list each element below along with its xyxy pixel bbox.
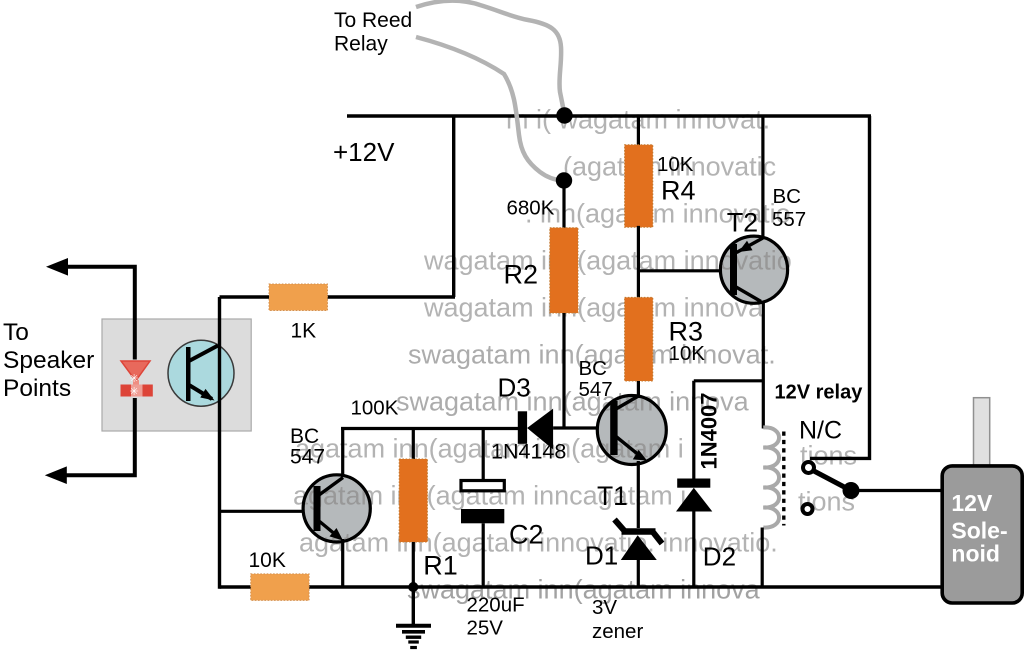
- resistor 10K left: [251, 574, 309, 601]
- svg-text:R4: R4: [661, 176, 696, 206]
- arrow to speaker points top: [46, 258, 68, 276]
- svg-text:12V relay: 12V relay: [775, 382, 864, 404]
- transistor T2: [423, 236, 792, 303]
- wire D1 to ground rail: [637, 560, 640, 587]
- svg-text:25V: 25V: [467, 617, 504, 640]
- svg-text:BC: BC: [579, 357, 608, 380]
- wire R1 top: [412, 429, 415, 460]
- svg-text:swagatam inn(agatam innova: swagatam inn(agatam innova: [407, 574, 761, 604]
- svg-text:Points: Points: [3, 375, 71, 402]
- wire T2 collector to relay coil: [762, 301, 765, 429]
- svg-text:R2: R2: [504, 260, 539, 290]
- wire gray to reed relay A: [416, 1, 564, 112]
- wire optocoupler LED loop with speaker arrows: [60, 267, 135, 475]
- wire D2 cathode: [692, 381, 695, 479]
- relay core dotted: [782, 432, 785, 526]
- wire R4 top: [637, 116, 640, 146]
- svg-text:3V: 3V: [592, 596, 617, 619]
- wire R1 bottom: [412, 542, 415, 587]
- solenoid body: [942, 466, 1022, 603]
- diode D3: [518, 409, 553, 450]
- node R2 top: [556, 172, 572, 188]
- wire signal line left of D3: [341, 427, 518, 430]
- transistor T1: [295, 386, 750, 464]
- svg-text:547: 547: [579, 378, 613, 401]
- wire D2 top horizontal: [694, 379, 764, 382]
- wire relay coil to ground rail: [761, 528, 764, 588]
- node R1 ground: [408, 582, 418, 592]
- svg-text:1K: 1K: [291, 320, 317, 343]
- svg-text:zener: zener: [592, 620, 643, 643]
- svg-text:D2: D2: [703, 542, 736, 572]
- svg-text:T2: T2: [727, 208, 759, 238]
- svg-text:N/C: N/C: [799, 417, 842, 445]
- wire D2 anode to ground rail: [692, 512, 695, 588]
- LED symbol inside optocoupler: [119, 360, 153, 399]
- diode D2: [676, 479, 712, 512]
- relay coil: [763, 427, 779, 527]
- resistor R1: [399, 459, 427, 542]
- optocoupler body: [102, 319, 251, 431]
- capacitor C2: [461, 429, 504, 588]
- svg-text:To Reed: To Reed: [334, 9, 412, 32]
- svg-text:680K: 680K: [507, 197, 555, 220]
- wire 1K to optocoupler collector: [220, 295, 270, 298]
- wire emitter left BC547: [341, 539, 344, 587]
- wire base left BC547: [220, 510, 316, 513]
- wire R2 bottom: [562, 313, 565, 429]
- svg-text:D3: D3: [498, 373, 531, 403]
- relay contact N/O: [803, 504, 813, 514]
- wire T1 emitter to D1: [637, 461, 640, 528]
- svg-text:220uF: 220uF: [467, 594, 525, 617]
- svg-text:10K: 10K: [669, 342, 706, 365]
- svg-text:D1: D1: [585, 541, 618, 571]
- resistor R3: [625, 297, 653, 381]
- svg-text:10K: 10K: [657, 153, 694, 176]
- svg-text:T1: T1: [597, 481, 628, 511]
- svg-text:R1: R1: [423, 551, 458, 581]
- wire collector left BC547: [341, 427, 344, 477]
- wire optocoupler transistor vertical: [218, 297, 221, 589]
- wire gray to reed relay B: [416, 37, 562, 181]
- svg-text:Speaker: Speaker: [3, 347, 94, 374]
- svg-text:noid: noid: [951, 540, 1000, 566]
- wire T2 base: [638, 269, 730, 272]
- svg-text:10K: 10K: [249, 549, 286, 572]
- wire relay pole to solenoid: [851, 489, 941, 492]
- zener D1: [615, 520, 663, 561]
- wire +12V rail: [347, 114, 871, 117]
- transistor Q1 BC547 left: [293, 475, 778, 558]
- svg-text:BC: BC: [773, 185, 802, 208]
- wire +12V to T2 emitter: [761, 116, 764, 238]
- relay contact N/C: [803, 462, 814, 473]
- svg-text:✳: ✳: [130, 373, 139, 385]
- svg-text:To: To: [3, 319, 29, 346]
- wire N/C to +12V rail: [810, 116, 870, 458]
- svg-text:100K: 100K: [351, 397, 399, 420]
- svg-text:547: 547: [290, 446, 325, 469]
- svg-text:12V: 12V: [951, 490, 993, 516]
- resistor R2: [550, 228, 578, 313]
- relay armature: [813, 471, 849, 490]
- wire R2 top stub: [562, 181, 565, 231]
- wire R3 to T1 collector: [637, 381, 640, 398]
- svg-text:C2: C2: [509, 520, 544, 550]
- arrow to speaker points bottom: [45, 466, 67, 484]
- wire R4 to R3: [637, 226, 640, 298]
- optocoupler phototransistor: [168, 340, 234, 406]
- svg-text:1N4007: 1N4007: [697, 392, 722, 469]
- resistor 1K: [269, 284, 328, 311]
- wire D3 to T1 base: [553, 426, 610, 429]
- wire ground rail: [220, 585, 942, 589]
- svg-text:Relay: Relay: [334, 33, 388, 56]
- svg-text:1N4148: 1N4148: [491, 440, 566, 464]
- svg-text:✳: ✳: [130, 386, 139, 398]
- wire 1K to +12V drop: [328, 295, 456, 298]
- node relay pole: [843, 482, 860, 499]
- svg-text:557: 557: [772, 208, 806, 231]
- solenoid plunger: [974, 398, 990, 469]
- wire +12V drop to 1K: [452, 116, 455, 297]
- node on +12V rail: [556, 107, 572, 123]
- resistor R4: [625, 145, 653, 227]
- svg-text:+12V: +12V: [333, 137, 395, 167]
- svg-text:wagatam inn(aga am innova: wagatam inn(aga am innova: [423, 292, 764, 322]
- ground symbol: [396, 587, 431, 648]
